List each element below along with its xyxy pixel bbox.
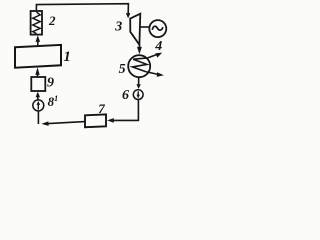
- shaft turbine to generator: [140, 26, 149, 28]
- svg-text:81: 81: [48, 94, 59, 109]
- wire heater 7 to left corner: [48, 122, 85, 124]
- pump 8: [33, 100, 44, 111]
- svg-text:9: 9: [47, 76, 54, 91]
- wire pump 6 down and left to heater 7: [114, 100, 139, 121]
- arrow pointing left at corner: [41, 121, 48, 126]
- condenser 5: [128, 55, 150, 77]
- arrow into heater 7 right side: [107, 118, 114, 123]
- arrow up into box 2: [36, 35, 41, 42]
- wire pump 8 to tank 9: [37, 97, 39, 100]
- wire turbine exhaust down: [138, 45, 140, 48]
- svg-text:5: 5: [119, 62, 126, 77]
- cooling water inlet arrow: [157, 72, 164, 77]
- sine wave inside generator: [152, 26, 163, 30]
- svg-text:1: 1: [63, 49, 71, 65]
- arrow into boiler bottom: [35, 67, 39, 75]
- arrow into condenser top: [137, 47, 142, 54]
- cooling coil zigzag inside condenser: [132, 58, 147, 72]
- up arrow inside pump 8: [37, 105, 39, 110]
- wire: superheater top to turbine inlet (top run): [36, 4, 128, 14]
- down arrow inside pump 6: [137, 91, 139, 95]
- arrow into pump 6: [136, 84, 140, 89]
- wire corner up to pump 8: [37, 112, 39, 125]
- cooling water inlet line (lower right): [146, 72, 158, 75]
- wire arrow into turbine (steam inlet): [126, 13, 130, 18]
- wire condenser to pump 6: [138, 77, 140, 84]
- wire tank 9 to boiler 1: [37, 75, 39, 77]
- svg-text:3: 3: [114, 20, 122, 35]
- svg-text:2: 2: [48, 13, 56, 28]
- svg-text:7: 7: [98, 101, 105, 116]
- generator 4: [149, 20, 166, 37]
- arrow into tank 9: [36, 92, 40, 98]
- boiler rect 1: [15, 45, 61, 68]
- wire boiler 1 to superheater 2: [37, 42, 39, 47]
- heating coil zigzag in box 2: [33, 12, 40, 33]
- svg-text:6: 6: [122, 88, 129, 103]
- heater rect 7: [85, 114, 106, 127]
- turbine 3: [130, 14, 140, 45]
- cooling water outlet arrow: [155, 53, 162, 58]
- cooling water outlet line (upper right): [148, 55, 157, 58]
- superheater box 2: [31, 11, 42, 35]
- pump 6: [133, 90, 143, 100]
- svg-text:4: 4: [154, 39, 162, 54]
- tank square 9: [31, 77, 45, 91]
